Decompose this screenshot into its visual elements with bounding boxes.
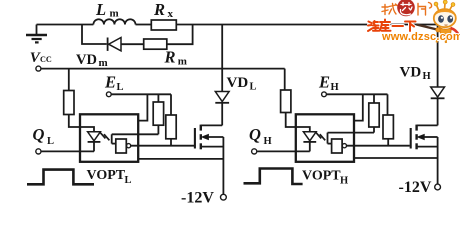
wire R1 to VOPT_L anode pin <box>69 115 94 132</box>
resistor Rm <box>144 39 167 49</box>
svg-text:L: L <box>125 175 132 186</box>
diode VDm <box>108 38 121 51</box>
opto emission arrows <box>100 132 109 140</box>
waveform pulse Q_H <box>244 169 303 185</box>
wire top rail left <box>37 24 94 26</box>
svg-text:H: H <box>423 71 431 82</box>
crown <box>437 3 453 11</box>
wire Q_L to VOPT_L <box>41 150 94 152</box>
svg-text:VOPT: VOPT <box>302 169 341 184</box>
terminal -12V (H) <box>435 184 441 190</box>
resistor R3 (L-side lower) <box>166 94 176 145</box>
wire detector top / pin to R2 <box>112 133 159 135</box>
resistor R6 (H-side lower) <box>383 94 393 145</box>
wire VOPT_L bottom pin to -12V line <box>138 158 223 160</box>
optocoupler VOPT_H box <box>296 114 354 162</box>
wire gate line H <box>347 145 410 147</box>
resistor R1 (left, L-side) <box>64 69 74 115</box>
svg-text:VD: VD <box>227 75 249 91</box>
resistor Rx <box>151 20 176 30</box>
wire gate line L <box>131 145 194 147</box>
svg-text:E: E <box>318 73 330 92</box>
svg-text:x: x <box>168 8 174 20</box>
logo text 找芯片 (outlined) <box>382 3 432 16</box>
terminal Vcc <box>36 66 41 71</box>
logo red circle behind 芯 <box>397 0 415 16</box>
svg-text:VD: VD <box>76 52 97 68</box>
optocoupler VOPT_L box <box>80 114 138 162</box>
wire Q_H to VOPT_H <box>257 150 310 152</box>
wire junction down to VDm branch <box>82 25 107 45</box>
logo text www.dzsc.com <box>382 31 460 45</box>
photodetector inside VOPT_L <box>112 134 131 153</box>
svg-text:VD: VD <box>400 65 422 81</box>
terminal -12V (L) <box>221 194 227 200</box>
diode VD_L <box>215 25 229 126</box>
svg-text:Q: Q <box>249 125 261 144</box>
terminal Q_L <box>36 149 41 154</box>
wire Lm to Rx <box>136 24 152 26</box>
logo mascot <box>417 0 460 43</box>
transistor VT_H (MOSFET) <box>411 125 438 150</box>
arm + magnifier handle <box>417 25 440 31</box>
LED inside VOPT_L <box>80 127 100 151</box>
svg-text:VOPT: VOPT <box>87 168 126 183</box>
wire E_L tap to VOPT_L pin <box>138 94 147 120</box>
wire R4 to VOPT_H anode pin <box>286 113 310 132</box>
svg-text:Q: Q <box>33 125 45 144</box>
svg-text:H: H <box>331 82 339 93</box>
watermark logo dzsc <box>360 0 460 46</box>
svg-text:E: E <box>104 73 116 92</box>
photodetector inside VOPT_H <box>328 133 347 153</box>
wire VDm to Rm <box>121 43 144 45</box>
wire E_H tap to VOPT_H pin <box>354 94 363 120</box>
svg-text:CC: CC <box>40 55 52 64</box>
svg-text:L: L <box>250 82 257 93</box>
svg-text:m: m <box>99 57 108 69</box>
wire source down to -12V (L) <box>222 137 224 194</box>
terminal E_L <box>106 92 111 97</box>
wire E_L rail <box>112 93 172 95</box>
terminal Q_H <box>252 149 257 154</box>
wire VOPT_H bottom pin to -12V line <box>354 157 438 159</box>
head <box>434 9 456 27</box>
opto emission arrows H <box>316 132 325 140</box>
feet <box>437 38 447 44</box>
svg-text:H: H <box>340 175 348 186</box>
resistor R4 (right, H-side from Vcc) <box>281 69 291 113</box>
svg-text:-12V: -12V <box>399 179 432 196</box>
LED inside VOPT_H <box>296 127 316 151</box>
svg-text:L: L <box>95 0 106 19</box>
svg-text:R: R <box>164 47 176 66</box>
diode VD_H <box>431 25 445 126</box>
logo text 维库一下 <box>367 18 417 33</box>
svg-text:m: m <box>110 8 119 20</box>
svg-text:L: L <box>47 136 54 147</box>
body <box>440 28 452 39</box>
ground <box>26 25 47 43</box>
waveform pulse Q_L <box>27 170 94 185</box>
terminal E_H <box>322 92 327 97</box>
wire Vcc rail <box>41 68 284 70</box>
svg-text:m: m <box>178 55 187 67</box>
wire Rm up to top rail <box>167 25 193 45</box>
svg-text:-12V: -12V <box>181 190 214 207</box>
wire top rail right <box>176 24 437 26</box>
eyes <box>438 15 444 22</box>
svg-text:L: L <box>117 82 124 93</box>
inductor Lm <box>93 19 135 24</box>
red ribbon <box>451 28 460 38</box>
wire source down to -12V (H) <box>437 137 439 184</box>
svg-text:H: H <box>264 136 272 147</box>
wire detector top / pin to R5 <box>328 132 375 134</box>
transistor VT_L (MOSFET) <box>195 125 224 150</box>
resistor R2 (L-side upper) <box>153 94 163 134</box>
wire E_H rail <box>327 93 388 95</box>
logo text 芯 on circle <box>400 3 412 15</box>
resistor R5 (H-side upper) <box>369 94 379 132</box>
svg-text:R: R <box>153 0 165 19</box>
